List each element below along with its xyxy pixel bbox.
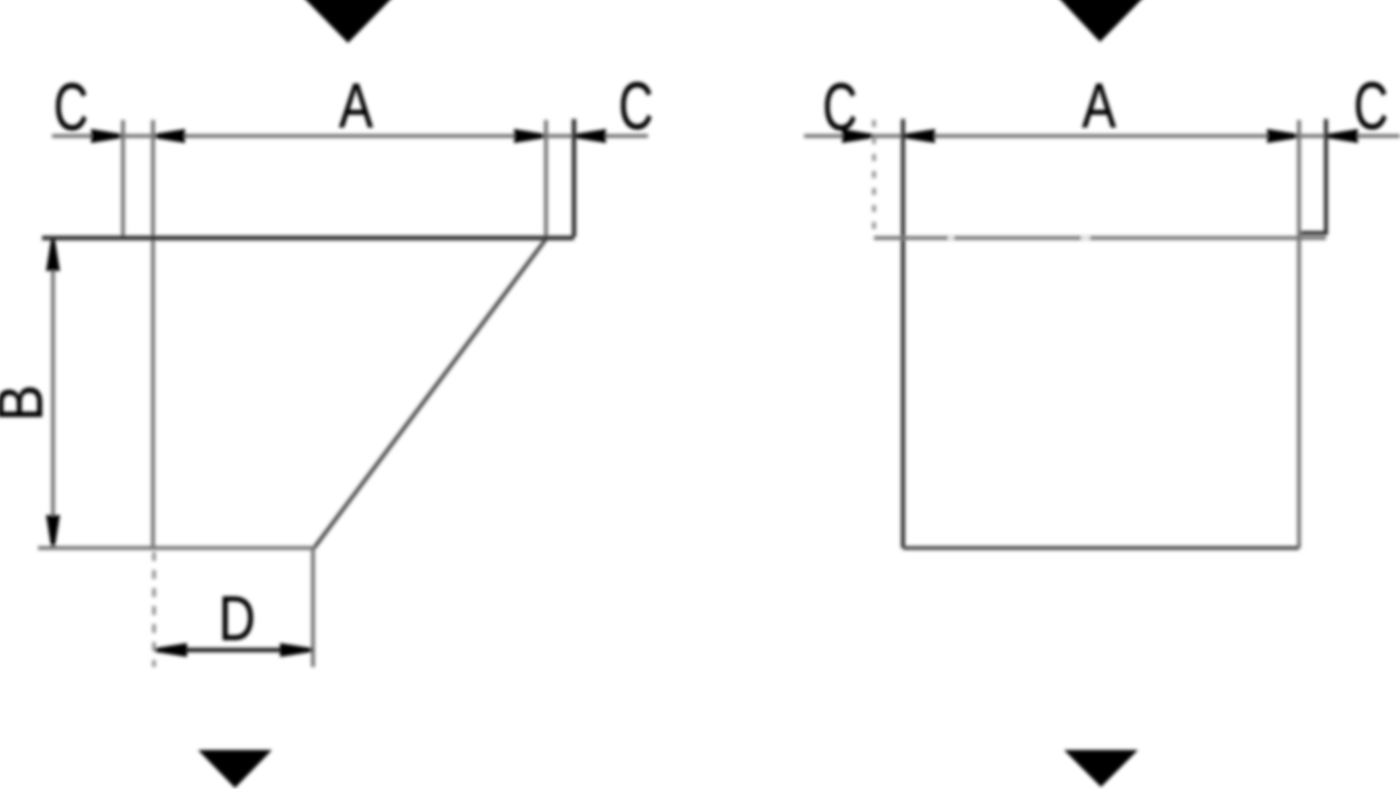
arrow at V4' pointing left <box>1327 129 1358 143</box>
arrow at V4 pointing left (right C dim) <box>575 129 606 143</box>
svg-text:C: C <box>619 69 654 144</box>
gap in flange bottom edge 2 <box>1081 237 1090 240</box>
arrow at V1' pointing right <box>842 129 873 143</box>
flange right edge V4' (right figure, dark) <box>1301 119 1326 233</box>
B dimension line <box>51 240 55 546</box>
extension line V2 / body left edge (left figure) <box>151 120 155 548</box>
arrow at V1 pointing right (left C dim) <box>91 129 122 143</box>
arrow at V3' pointing right <box>1267 129 1298 143</box>
dimension line A/C (right figure) <box>804 134 1400 138</box>
diagonal body edge (left figure) <box>314 239 546 548</box>
dimension line A/C (left figure) <box>52 134 648 138</box>
body bottom edge (right figure) <box>903 546 1299 550</box>
svg-text:A: A <box>1082 71 1117 141</box>
flange bottom edge (left figure, dark) with B extension <box>42 236 574 241</box>
svg-text:A: A <box>339 71 374 141</box>
D dimension line <box>155 648 312 652</box>
flange right edge V4 (left figure, dark) <box>572 119 576 237</box>
svg-text:C: C <box>54 70 89 145</box>
body bottom edge (left figure) with B extension <box>38 546 314 550</box>
D extension line left (dashed) <box>152 552 156 667</box>
body left edge V2' (right figure, dark) <box>901 119 905 548</box>
svg-text:B: B <box>0 385 56 422</box>
svg-text:D: D <box>219 584 256 654</box>
flange bottom edge (right figure) <box>874 236 1326 240</box>
gap in flange bottom edge 1 <box>948 237 954 240</box>
D arrow right <box>280 643 311 657</box>
extension line V1' flange left edge (right figure, dashed) <box>872 120 876 237</box>
D extension line right <box>311 548 315 667</box>
svg-text:C: C <box>1354 69 1389 144</box>
extension line V1 flange left edge (left figure) <box>121 120 125 237</box>
extension line V3 body right edge (left figure) <box>544 120 548 238</box>
arrow at V2 pointing left (A dim / left C dim) <box>154 129 185 143</box>
B arrow down <box>46 515 60 546</box>
body right edge V3' (right figure) <box>1297 120 1301 548</box>
top triangle marker left figure <box>302 0 394 43</box>
bottom triangle marker right figure <box>1064 750 1138 787</box>
top triangle marker right figure <box>1057 0 1145 42</box>
D arrow left <box>156 643 187 657</box>
arrow at V3 pointing right (A dim / right C dim) <box>514 129 545 143</box>
arrow at V2' pointing left <box>904 129 935 143</box>
B arrow up <box>46 240 60 271</box>
bottom triangle marker left figure <box>198 750 272 788</box>
